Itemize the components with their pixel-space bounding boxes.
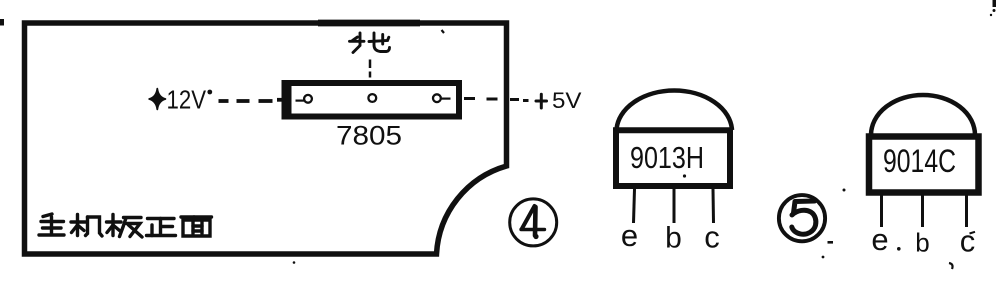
svg-text:12V: 12V bbox=[167, 85, 207, 115]
scan mark top-right corner bbox=[993, 0, 996, 7]
pin 3 (output) bbox=[433, 94, 441, 102]
svg-text:b: b bbox=[665, 222, 682, 255]
svg-text:c: c bbox=[704, 220, 720, 255]
figure number 5 bbox=[779, 195, 825, 241]
svg-text:7805: 7805 bbox=[336, 121, 402, 151]
+5V label bbox=[536, 94, 547, 108]
transistor 9014C body bbox=[869, 137, 979, 193]
+12V label bbox=[149, 89, 165, 110]
thicker scanned segment of board top edge bbox=[318, 20, 420, 27]
wire stub from pin 3 bbox=[441, 97, 451, 99]
ink speck bbox=[683, 174, 686, 177]
ink tick above c label bbox=[970, 232, 976, 234]
ink dot after 12V bbox=[207, 90, 212, 95]
lead b bbox=[673, 189, 676, 223]
dashed wire 7805 to +5V bbox=[464, 99, 529, 101]
pin 1 (input) bbox=[304, 95, 312, 103]
ink dot below board bottom edge bbox=[293, 261, 296, 264]
pin 2 (ground) bbox=[368, 94, 376, 102]
svg-text:e: e bbox=[871, 222, 888, 257]
ink mark below c bbox=[949, 263, 953, 269]
dashed wire 地 to pin 2 bbox=[369, 60, 372, 78]
transistor 9013H body bbox=[616, 130, 730, 186]
regulator 7805 body bbox=[285, 83, 460, 117]
lead b bbox=[921, 193, 924, 227]
transistor 9013H dome bbox=[617, 91, 733, 130]
lead e bbox=[634, 189, 635, 223]
board label 主机板正面, hand-drawn glyphs bbox=[39, 214, 212, 237]
svg-text:9014C: 9014C bbox=[883, 143, 956, 179]
正 bbox=[148, 217, 175, 220]
transistor 9014C dome bbox=[871, 95, 975, 135]
主 bbox=[43, 214, 52, 217]
板 bbox=[111, 215, 114, 236]
svg-text:b: b bbox=[915, 228, 929, 258]
ink dot left of 9014 bbox=[843, 189, 846, 192]
lead c bbox=[965, 193, 968, 227]
ink dash right of circle bbox=[828, 241, 834, 244]
面 bbox=[181, 215, 212, 218]
lead e bbox=[880, 193, 883, 227]
scan tick near top-right of board bbox=[442, 30, 445, 33]
scan mark left edge bbox=[0, 19, 4, 26]
svg-text:c: c bbox=[960, 224, 976, 259]
wire stub to pin 1 bbox=[296, 99, 305, 101]
svg-text:e: e bbox=[621, 218, 638, 253]
label 地 (ground), hand-drawn glyph bbox=[350, 33, 390, 53]
lead c bbox=[712, 189, 716, 223]
dashed wire +12V to 7805 bbox=[219, 100, 285, 101]
thick inner left border bbox=[287, 84, 292, 115]
ink dot between e and b bbox=[897, 247, 901, 251]
机 bbox=[76, 215, 79, 236]
svg-text:5V: 5V bbox=[552, 88, 582, 113]
main board outline (主机板正面) with corner notch bbox=[25, 23, 507, 254]
figure number 4 bbox=[510, 199, 557, 246]
svg-text:9013H: 9013H bbox=[630, 140, 704, 175]
